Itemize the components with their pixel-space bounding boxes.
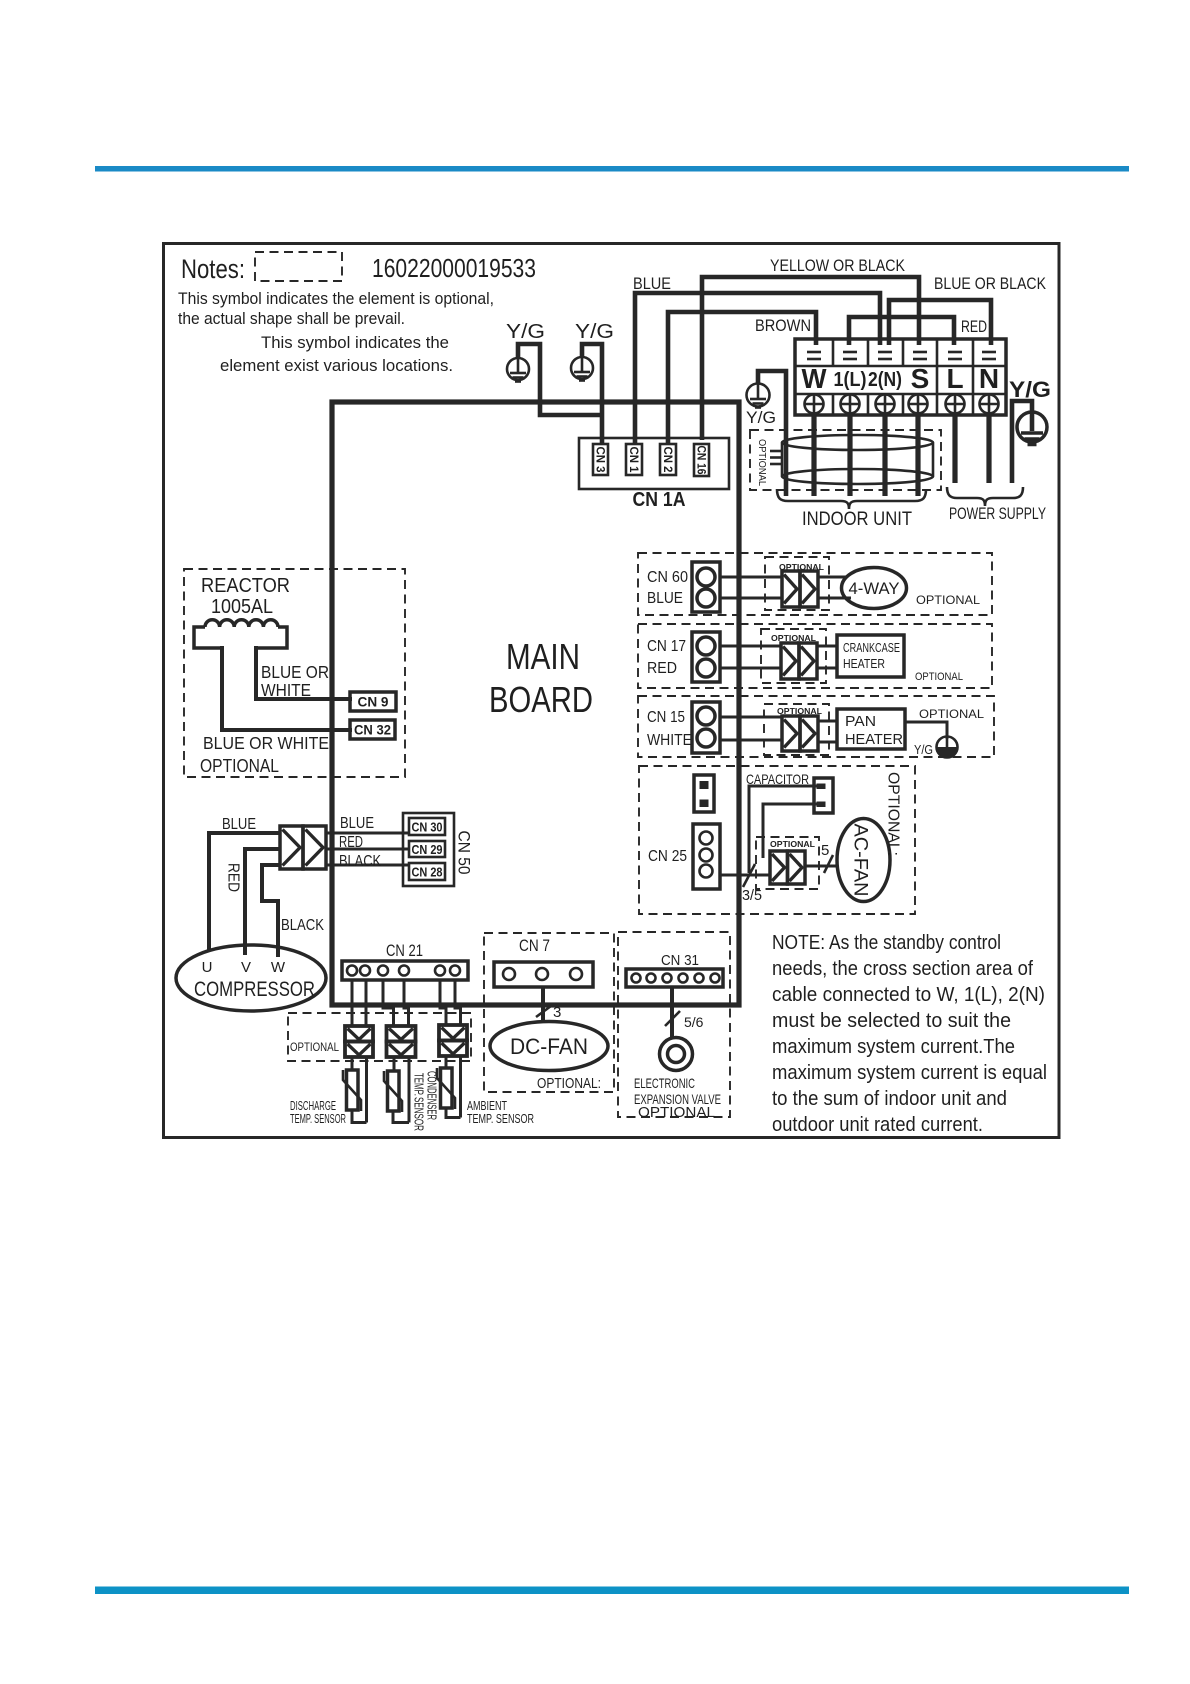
svg-text:1005AL: 1005AL — [211, 596, 273, 618]
plug connector (4-way) — [782, 571, 818, 607]
wire BLUE OR BLACK 2(N) to N — [889, 300, 991, 345]
thermistor (discharge temp sensor) — [347, 1070, 359, 1110]
svg-text:W: W — [271, 959, 286, 976]
svg-text:2(N): 2(N) — [868, 369, 902, 391]
reactor L1 coil — [205, 620, 278, 627]
connector CN 15 — [692, 702, 720, 753]
connector CN 17 — [692, 632, 720, 682]
thermistor (condenser temp sensor) — [388, 1071, 400, 1111]
connector CN 1A block — [579, 438, 729, 489]
svg-text:CN 1A: CN 1A — [633, 489, 686, 511]
sensors optional dashed box — [288, 1013, 471, 1061]
svg-text:BLUE: BLUE — [647, 590, 683, 607]
wire CN7 to DC-FAN — [541, 987, 545, 1022]
svg-text:CN 50: CN 50 — [455, 831, 474, 875]
indoor unit choke coil — [782, 435, 933, 484]
wire CN21 pin1 — [351, 980, 354, 1026]
svg-text:maximum system current is equa: maximum system current is equal — [772, 1061, 1047, 1084]
svg-text:W: W — [802, 363, 828, 394]
svg-text:CN 15: CN 15 — [647, 709, 685, 726]
main board outline — [332, 402, 739, 1005]
svg-text:CN 21: CN 21 — [386, 941, 423, 960]
svg-text:INDOOR UNIT: INDOOR UNIT — [802, 509, 912, 530]
svg-text:WHITE: WHITE — [647, 732, 692, 749]
plug connector (compressor harness) — [280, 826, 326, 869]
svg-text:REACTOR: REACTOR — [201, 575, 290, 597]
ac-fan optional dashed box — [639, 766, 915, 914]
svg-text:This symbol indicates the elem: This symbol indicates the element is opt… — [178, 289, 494, 308]
wire-count slash 5/6 — [665, 1011, 680, 1026]
wire CN31 to expansion valve — [670, 987, 674, 1038]
svg-text:RED: RED — [647, 660, 677, 677]
svg-text:POWER SUPPLY: POWER SUPPLY — [949, 504, 1046, 523]
connector CN 50 outer box — [403, 813, 454, 886]
optional plug dashed box (pan) — [764, 704, 829, 755]
dc-fan optional dashed box — [484, 933, 614, 1092]
wire CN21 pin6 — [455, 980, 461, 1026]
plug connector (pan) — [782, 716, 818, 751]
electronic expansion valve coil — [660, 1038, 693, 1071]
4-WAY valve — [842, 568, 907, 609]
connector CN 25 — [693, 824, 720, 889]
wires CN17 to plug — [720, 646, 781, 668]
capacitor wire 2 — [763, 804, 818, 858]
svg-text:Y/G: Y/G — [1009, 377, 1051, 402]
reactor optional dashed box — [184, 569, 405, 777]
top blue rule — [95, 166, 1129, 172]
connector CN 60 — [692, 562, 720, 612]
cn31 optional dashed box — [618, 932, 730, 1117]
svg-text:YELLOW OR BLACK: YELLOW OR BLACK — [770, 257, 905, 275]
svg-text:Y/G: Y/G — [914, 742, 933, 757]
screw circles bottom row — [805, 395, 999, 414]
wire-count slash 5 — [824, 855, 833, 873]
svg-text:CONDENSER: CONDENSER — [425, 1071, 439, 1120]
svg-text:needs, the cross section area: needs, the cross section area of — [772, 957, 1033, 980]
power supply brace — [947, 487, 1023, 506]
svg-text:U: U — [202, 959, 213, 976]
svg-text:CN 3: CN 3 — [594, 447, 608, 473]
wire BLUE to CN30 — [326, 832, 409, 835]
wire Y/G to indoor unit — [758, 371, 786, 496]
svg-text:OPTIONAL: OPTIONAL — [915, 671, 963, 683]
optional plug dashed box (ac-fan) — [756, 837, 819, 889]
wire reactor to CN9 — [256, 646, 352, 699]
svg-text:CN 60: CN 60 — [647, 569, 688, 586]
svg-text:BLUE OR: BLUE OR — [261, 662, 329, 682]
connector CN 21 — [342, 961, 468, 980]
svg-text:V: V — [241, 959, 251, 976]
wire Y/G power supply earth — [1012, 401, 1032, 483]
svg-text:N: N — [979, 363, 999, 394]
wire CN21 pin3 — [383, 980, 394, 1026]
ground symbol (pan heater, filled) — [937, 737, 958, 758]
crankcase heater — [837, 635, 904, 677]
ground symbol 1 — [507, 358, 529, 382]
pin CN 1 — [626, 444, 642, 475]
wire BLACK to CN28 — [326, 864, 409, 867]
bottom blue rule — [95, 1587, 1129, 1595]
svg-text:TEMP.: TEMP. — [412, 1073, 426, 1096]
wire S to indoor unit — [915, 413, 920, 496]
wire RED 1(L) to L — [849, 317, 954, 345]
plug connector (ac-fan) — [770, 851, 805, 884]
svg-text:CN 25: CN 25 — [648, 848, 687, 865]
compressor — [176, 945, 326, 1011]
connector CN 32 — [350, 720, 395, 739]
DC-FAN — [490, 1022, 608, 1071]
svg-text:4-WAY: 4-WAY — [849, 579, 900, 598]
AC-FAN — [837, 819, 890, 902]
svg-text:CN 30: CN 30 — [412, 821, 443, 835]
svg-text:must be selected to suit th: must be selected to suit the — [772, 1009, 1011, 1032]
svg-text:cable connected to W, 1(L), 2: cable connected to W, 1(L), 2(N) — [772, 983, 1045, 1006]
svg-text:TEMP. SENSOR: TEMP. SENSOR — [467, 1111, 534, 1126]
svg-text:maximum system current.The: maximum system current.The — [772, 1035, 1015, 1058]
wire ground2 / CN3 — [582, 344, 602, 444]
svg-text:to the sum of indoor unit and: to the sum of indoor unit and — [772, 1087, 1007, 1110]
svg-text:element exist various location: element exist various locations. — [220, 356, 453, 375]
choke hatch ticks — [770, 451, 781, 464]
svg-text:outdoor unit rated current.: outdoor unit rated current. — [772, 1113, 983, 1136]
thermistor (ambient temp sensor) — [441, 1068, 453, 1108]
svg-text:Notes:: Notes: — [181, 254, 245, 284]
connector (capacitor 2-pin) — [694, 775, 714, 812]
wire BLACK to compressor W — [262, 865, 280, 957]
svg-text:5/6: 5/6 — [684, 1014, 704, 1030]
svg-text:Y/G: Y/G — [746, 408, 776, 427]
wire pan heater to earth — [905, 722, 947, 739]
diagram border frame — [164, 244, 1060, 1138]
indoor unit brace — [777, 489, 926, 509]
svg-text:OPTIONAL: OPTIONAL — [200, 756, 279, 776]
svg-text:CN 29: CN 29 — [412, 843, 443, 857]
svg-text:BLUE: BLUE — [222, 816, 256, 833]
wire-count slash 3/5 — [743, 864, 755, 887]
svg-text:BROWN: BROWN — [755, 317, 811, 335]
wire YELLOW OR BLACK CN16 to S — [702, 277, 919, 440]
optional plug dashed box (crankcase) — [761, 629, 826, 683]
pin CN 2 — [660, 444, 676, 475]
wire BROWN CN2 to W — [668, 312, 816, 444]
svg-text:BLUE OR BLACK: BLUE OR BLACK — [934, 275, 1046, 293]
pan heater optional dashed box — [638, 696, 994, 757]
svg-text:BLACK: BLACK — [281, 917, 325, 934]
ground symbol (power supply earth) — [1017, 412, 1047, 445]
wire BLUE CN1 to 2(N) — [635, 293, 880, 444]
svg-text:5: 5 — [821, 842, 829, 859]
svg-text:OPTIONAL: OPTIONAL — [756, 439, 768, 486]
svg-text:OPTIONAL:: OPTIONAL: — [537, 1076, 601, 1092]
reactor body — [194, 627, 287, 648]
svg-text:HEATER: HEATER — [845, 731, 903, 748]
svg-text:RED: RED — [339, 834, 363, 851]
plug connector (crankcase) — [781, 643, 817, 679]
svg-text:CN 28: CN 28 — [412, 866, 443, 880]
svg-text:OPTIONAL: OPTIONAL — [638, 1105, 715, 1121]
optional plug dashed box (4-way) — [765, 557, 829, 610]
svg-text:BLUE OR WHITE: BLUE OR WHITE — [203, 733, 329, 753]
svg-text:MAIN: MAIN — [506, 636, 580, 677]
wire BLUE to compressor U — [209, 833, 280, 951]
wire CN21 pin2 — [365, 980, 368, 1026]
svg-text:16022000019533: 16022000019533 — [372, 253, 536, 283]
svg-text:COMPRESSOR: COMPRESSOR — [194, 978, 315, 1001]
wire RED to compressor V — [245, 849, 280, 955]
wires plug to pan heater — [818, 721, 838, 742]
svg-text:S: S — [911, 363, 930, 394]
svg-text:PAN: PAN — [845, 713, 876, 730]
pan heater — [837, 709, 905, 749]
wires plug to 4-way — [818, 577, 851, 598]
crankcase optional dashed box — [638, 624, 992, 688]
svg-text:OPTIONAL: OPTIONAL — [916, 593, 980, 607]
connector CN 28 — [409, 863, 445, 880]
pin CN 3 — [593, 444, 608, 475]
svg-text:CN 2: CN 2 — [661, 447, 675, 473]
svg-text:OPTIONAL: OPTIONAL — [290, 1042, 340, 1054]
wire W to indoor unit — [811, 413, 816, 496]
ground symbol (left of terminal block) — [747, 384, 770, 408]
wires CN60 to plug — [720, 577, 782, 598]
svg-text:CN 1: CN 1 — [627, 447, 641, 473]
svg-text:CN 32: CN 32 — [354, 722, 391, 738]
capacitor — [814, 778, 833, 813]
wire 2(N) to indoor unit — [882, 413, 887, 496]
plug connector (condenser sensor) — [387, 1026, 416, 1057]
svg-text:1(L): 1(L) — [834, 369, 867, 391]
svg-text:CN 17: CN 17 — [647, 638, 686, 655]
connector CN 30 — [409, 818, 445, 835]
plug connector (discharge sensor) — [345, 1026, 373, 1057]
4-way valve optional dashed box — [638, 553, 992, 615]
svg-text:OPTIONAL: OPTIONAL — [919, 707, 984, 721]
wire CN21 pin4 — [404, 980, 409, 1026]
svg-text:This symbol indicates the: This symbol indicates the — [261, 333, 449, 352]
plug connector (ambient sensor) — [439, 1025, 467, 1056]
connector CN 7 — [494, 962, 593, 987]
svg-text:the actual shape shall be prev: the actual shape shall be prevail. — [178, 309, 405, 328]
wire L to power supply — [952, 413, 957, 483]
svg-text:Y/G: Y/G — [575, 321, 614, 343]
wire CN25 to plug — [720, 874, 770, 877]
wire CN21 pin5 — [440, 980, 446, 1026]
svg-text:OPTIONAL:: OPTIONAL: — [885, 772, 902, 856]
connector CN 31 — [626, 969, 723, 987]
svg-text:CN 9: CN 9 — [358, 694, 389, 710]
svg-text:CRANKCASE: CRANKCASE — [843, 641, 900, 655]
svg-text:BLUE: BLUE — [340, 815, 374, 832]
svg-text:NOTE: As the standby control: NOTE: As the standby control — [772, 931, 1001, 954]
wire reactor to CN32 — [222, 646, 352, 730]
wire plug to ac-fan — [805, 865, 838, 868]
svg-text:Y/G: Y/G — [506, 321, 545, 343]
svg-text:OPTIONAL: OPTIONAL — [770, 839, 815, 849]
svg-text:BOARD: BOARD — [489, 679, 593, 720]
svg-text:RED: RED — [961, 318, 987, 336]
wire ground1 to CN3 line — [518, 344, 602, 415]
svg-text:AC-FAN: AC-FAN — [850, 824, 871, 897]
optional dashed box (indoor unit choke) — [750, 430, 941, 490]
svg-text:RED: RED — [225, 863, 242, 892]
svg-text:WHITE: WHITE — [261, 680, 311, 700]
svg-text:TEMP. SENSOR: TEMP. SENSOR — [290, 1111, 346, 1126]
capacitor wire 1 — [749, 786, 818, 873]
svg-text:BLACK: BLACK — [339, 853, 382, 870]
svg-text:HEATER: HEATER — [843, 657, 885, 671]
svg-text:CN 16: CN 16 — [695, 446, 709, 475]
pin CN 16 — [694, 444, 709, 476]
wires plug to crankcase heater — [817, 646, 837, 668]
svg-text:SENSOR: SENSOR — [412, 1097, 426, 1131]
ground symbol 2 — [571, 357, 593, 381]
svg-text:3: 3 — [553, 1004, 561, 1021]
svg-text:DC-FAN: DC-FAN — [510, 1034, 588, 1059]
svg-text:CN 7: CN 7 — [519, 936, 550, 955]
svg-text:BLUE: BLUE — [633, 275, 671, 293]
wires CN15 to plug — [720, 717, 782, 740]
wire-count slash 3 — [536, 1006, 551, 1017]
notes optional-symbol dashed box — [255, 252, 342, 281]
connector CN 9 — [350, 692, 396, 711]
svg-text:CN 31: CN 31 — [661, 952, 699, 969]
terminal block TB1 — [795, 339, 1006, 415]
wire 1(L) to indoor unit — [847, 413, 852, 496]
svg-text:L: L — [946, 363, 963, 394]
wire RED to CN29 — [326, 848, 409, 851]
screw symbols in terminal top row — [807, 352, 996, 359]
wire N to power supply — [986, 413, 991, 483]
svg-text:ELECTRONIC: ELECTRONIC — [634, 1075, 695, 1091]
connector CN 29 — [409, 841, 445, 857]
